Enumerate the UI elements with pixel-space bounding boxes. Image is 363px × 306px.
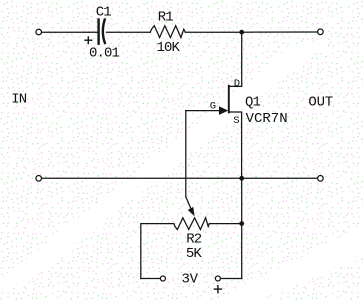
wire C1 to R1	[107, 31, 151, 33]
node source junction	[239, 176, 244, 181]
svg-text:R1: R1	[158, 9, 174, 25]
terminal mid-right	[318, 176, 324, 182]
svg-text:C1: C1	[96, 5, 112, 21]
wiper diagonal	[186, 197, 191, 210]
svg-text:3V: 3V	[182, 271, 199, 287]
svg-text:S: S	[233, 115, 239, 127]
terminal mid-left	[36, 176, 42, 182]
wire battery positive to right vertical	[221, 278, 242, 280]
potentiometer R2	[174, 218, 210, 230]
wire mid rail	[42, 177, 318, 179]
capacitor C1	[99, 20, 105, 44]
wire drain vertical	[229, 32, 242, 86]
svg-text:5K: 5K	[186, 246, 203, 262]
resistor R1	[150, 26, 185, 38]
wire top rail left segment	[42, 31, 98, 33]
node R2 junction	[239, 221, 244, 226]
gate arrowhead	[219, 106, 228, 115]
svg-text:D: D	[234, 78, 240, 90]
wire gate vertical	[185, 111, 187, 197]
wire R2 right lead	[209, 223, 241, 225]
wire source lead	[229, 112, 242, 176]
wire gate lead	[186, 110, 220, 112]
svg-text:OUT: OUT	[308, 95, 333, 111]
svg-text:0.01: 0.01	[89, 46, 120, 62]
svg-text:VCR7N: VCR7N	[246, 111, 288, 127]
wire right vertical	[241, 178, 243, 278]
svg-text:10K: 10K	[157, 40, 181, 56]
svg-text:G: G	[210, 100, 216, 112]
watermark clear band A	[0, 42, 330, 288]
wiper arrowhead	[188, 207, 195, 216]
terminal battery negative	[160, 276, 165, 281]
terminal battery positive	[215, 276, 220, 281]
svg-text:IN: IN	[11, 92, 27, 108]
transistor Q1 channel bar	[228, 86, 230, 113]
wire junction to terminal top-right	[242, 31, 318, 33]
wire R1 to junction	[185, 31, 241, 33]
terminal top-right	[318, 29, 324, 35]
plus sign capacitor	[85, 37, 92, 44]
plus sign battery	[214, 286, 221, 293]
wire R2 left lead	[141, 224, 174, 279]
watermark clear band B	[215, 225, 363, 301]
svg-text:Q1: Q1	[245, 94, 261, 110]
terminal top-left	[36, 29, 42, 35]
wire bottom left to battery terminal	[141, 278, 160, 280]
node drain junction	[239, 30, 244, 35]
